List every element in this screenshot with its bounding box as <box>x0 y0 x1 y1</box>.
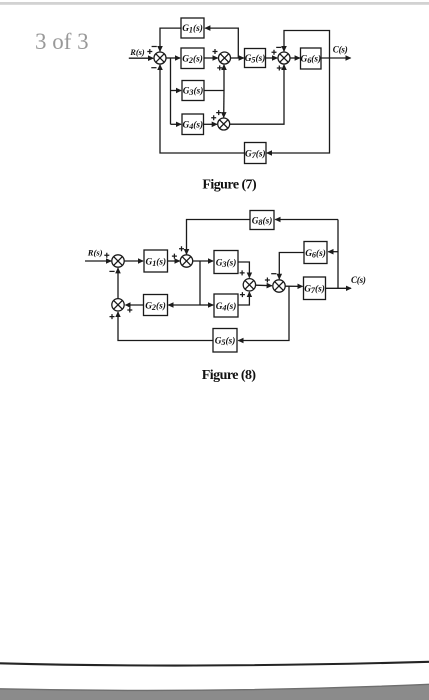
summing junction B <box>180 255 192 267</box>
wire G2 output to summer D <box>126 304 144 306</box>
sign + at S1 input <box>147 49 152 54</box>
node R(s) input label (fig7) <box>129 48 145 57</box>
wire branch into G4 <box>200 304 213 306</box>
node R(s) input label (fig8) <box>87 247 103 257</box>
sign - at S1 top <box>152 46 157 48</box>
summing junction D <box>112 299 124 311</box>
svg-text:C(s): C(s) <box>333 45 348 55</box>
wire S2 to G5 <box>231 57 244 59</box>
wire S3 to G6 <box>290 57 300 59</box>
sign + at B left <box>172 254 177 259</box>
block G1 <box>181 18 204 38</box>
node C(s) output label (fig7) <box>333 45 348 55</box>
block G8 <box>250 211 274 230</box>
wire feedback vertical from output <box>337 220 339 289</box>
svg-text:G4(s): G4(s) <box>182 119 203 131</box>
svg-text:G1(s): G1(s) <box>182 23 203 35</box>
wire G2 to S2 <box>204 57 218 59</box>
svg-text:G5(s): G5(s) <box>215 336 236 348</box>
wire branch from E output down to G5 input <box>238 286 289 340</box>
wire S4 to S3 bottom <box>230 65 284 124</box>
wire G6 output to E top <box>279 253 304 279</box>
sign + at C bottom <box>240 292 245 297</box>
block G3 (fig8) <box>214 251 238 274</box>
wire from output down to G7 <box>267 58 330 153</box>
block G5 (fig8) <box>213 329 237 353</box>
sign + at A input <box>104 253 109 258</box>
sign + at S3 left <box>272 50 277 55</box>
wire branch into G2 right side <box>168 304 200 306</box>
wire G3 output down to summer C top <box>238 262 249 278</box>
sign - at S3 top <box>276 46 281 48</box>
block G2 <box>181 48 204 69</box>
wire G5 output to D bottom <box>118 312 213 341</box>
wire G1 output to S1 top <box>160 28 181 51</box>
wire S1 to G2 <box>166 57 180 59</box>
wire into G3 <box>171 90 182 92</box>
summing junction A <box>112 255 124 267</box>
block G6 (fig8) <box>304 242 327 264</box>
node C(s) output label (fig8) <box>351 275 366 285</box>
sign + at S2 left <box>213 49 218 54</box>
wire B to G3 <box>193 260 213 262</box>
sign + at B top <box>179 246 184 251</box>
page top border <box>0 2 429 5</box>
wire G4 to S4 <box>204 123 217 125</box>
bottom separator line (slanted) <box>0 662 429 666</box>
wire G4 output up to summer C bottom <box>238 292 249 305</box>
block G2 (fig8) <box>144 295 168 316</box>
summing junction C <box>243 279 255 291</box>
wire G3 up into S2 bottom <box>223 65 225 91</box>
wire G7 output to S1 bottom <box>160 65 245 153</box>
wire feedback into G6 <box>328 251 338 253</box>
svg-text:G2(s): G2(s) <box>145 300 166 312</box>
wire G8 output to B top <box>187 220 251 255</box>
sign - at S1 bottom <box>151 67 156 69</box>
summing junction E <box>273 280 285 292</box>
svg-text:Figure (8): Figure (8) <box>202 368 257 383</box>
block G3 <box>182 81 204 101</box>
wire G6 to C(s) output <box>321 57 351 59</box>
wire loop from output over G6 to S3 top <box>284 31 330 59</box>
block G4 <box>182 114 204 135</box>
svg-text:R(s): R(s) <box>87 247 103 257</box>
summing junction S1 <box>154 52 166 64</box>
wire G7 output to C(s) <box>326 287 352 289</box>
wire G3 output tee <box>204 90 224 92</box>
wire R(s) input to summer A <box>85 260 111 262</box>
sign + at E left <box>265 278 270 283</box>
svg-text:G8(s): G8(s) <box>252 215 273 227</box>
wire feedback into G8 <box>275 219 338 221</box>
sign + at C top <box>240 270 245 275</box>
svg-text:G5(s): G5(s) <box>245 53 266 65</box>
summing junction S3 <box>278 52 290 64</box>
block G1 (fig8) <box>144 250 168 272</box>
sign + at S2 bottom <box>217 65 222 70</box>
sign - at A bottom <box>109 270 114 272</box>
wire E to G7 <box>285 285 302 287</box>
wire A to G1 <box>124 260 143 262</box>
wire G1 to summer B <box>168 260 180 262</box>
wire G5 to S3 <box>266 57 278 59</box>
sign + at S4 top <box>216 110 221 115</box>
wire D up to A bottom <box>117 268 119 298</box>
wire branch down to G3 and G4 <box>170 58 172 124</box>
bottom gray band <box>0 684 429 700</box>
svg-text:R(s): R(s) <box>129 48 145 57</box>
block G7 (fig8) <box>304 277 326 300</box>
svg-text:G7(s): G7(s) <box>304 284 325 296</box>
block G6 <box>300 48 321 69</box>
summing junction S4 <box>218 118 230 130</box>
wire into G4 <box>171 123 182 125</box>
svg-text:G3(s): G3(s) <box>216 257 237 269</box>
wire R(s) input to summer S1 <box>129 57 153 59</box>
wire G3 down into S4 top <box>223 91 225 118</box>
svg-text:G3(s): G3(s) <box>183 86 204 98</box>
block G5 <box>245 49 266 68</box>
svg-text:C(s): C(s) <box>351 275 366 285</box>
sign + at S4 left <box>211 115 216 120</box>
wire C to summer E <box>256 284 272 287</box>
block G4 (fig8) <box>214 294 238 317</box>
wire feedback tap up to G1 <box>205 28 238 58</box>
sign + at S3 bottom <box>277 66 282 71</box>
svg-text:Figure (7): Figure (7) <box>202 178 257 193</box>
sign - at E top <box>271 273 276 275</box>
svg-text:G7(s): G7(s) <box>245 148 266 160</box>
sign + at D right <box>127 308 132 313</box>
block G7 <box>245 143 267 164</box>
svg-text:G1(s): G1(s) <box>145 256 166 268</box>
svg-text:G6(s): G6(s) <box>305 248 326 260</box>
wire branch down from B output <box>199 261 201 305</box>
summing junction S2 <box>219 52 231 64</box>
svg-text:G4(s): G4(s) <box>216 301 237 313</box>
sign + at D bottom <box>110 314 115 319</box>
svg-text:G6(s): G6(s) <box>300 54 321 66</box>
svg-text:3 of 3: 3 of 3 <box>35 29 89 54</box>
svg-text:G2(s): G2(s) <box>182 53 203 65</box>
